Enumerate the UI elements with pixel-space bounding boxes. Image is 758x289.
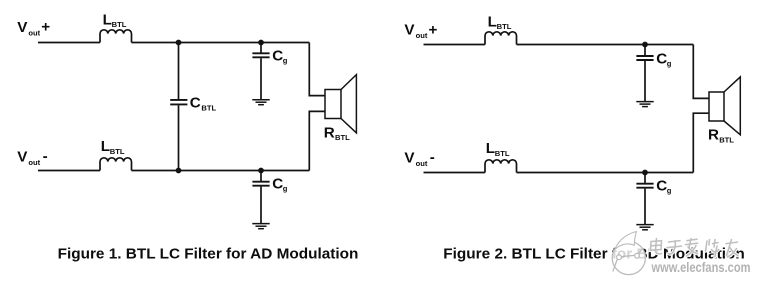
svg-text:L: L bbox=[101, 138, 110, 155]
wire bbox=[178, 43, 180, 100]
inductor L_BTL (fig1 bottom) bbox=[100, 158, 132, 171]
capacitor Cg (fig1 bottom) bbox=[252, 182, 269, 186]
label Cg (fig2 bottom) bbox=[656, 177, 672, 195]
wire bbox=[309, 43, 325, 96]
inductor L_BTL (fig2 bottom) bbox=[485, 160, 517, 173]
ground (fig2 top Cg) bbox=[636, 102, 653, 107]
wire bbox=[644, 173, 646, 184]
wire bbox=[260, 187, 262, 223]
label C_BTL bbox=[190, 95, 217, 113]
watermark text (CJK approximation) bbox=[651, 239, 739, 258]
junction bbox=[176, 40, 182, 46]
svg-text:www.elecfans.com: www.elecfans.com bbox=[651, 260, 751, 275]
svg-text:BTL: BTL bbox=[495, 149, 510, 158]
svg-text:g: g bbox=[283, 184, 288, 193]
wire bbox=[132, 170, 310, 172]
junction bbox=[258, 40, 264, 46]
node Vout- (left) bbox=[17, 148, 47, 167]
wire bbox=[260, 171, 262, 182]
node Vout- (right) bbox=[404, 149, 434, 168]
svg-text:BTL: BTL bbox=[335, 133, 350, 142]
svg-text:out: out bbox=[416, 159, 428, 168]
wire bbox=[693, 113, 709, 172]
label L_BTL (fig2 bottom) bbox=[486, 140, 510, 158]
label Cg (fig2 top) bbox=[656, 50, 672, 68]
svg-text:V: V bbox=[17, 19, 28, 36]
wire bbox=[38, 170, 100, 172]
junction bbox=[642, 42, 648, 48]
caption Figure 1 bbox=[58, 246, 359, 263]
caption Figure 2 bbox=[443, 246, 745, 263]
svg-text:C: C bbox=[656, 177, 667, 194]
wire bbox=[644, 45, 646, 56]
node Vout+ (right) bbox=[404, 21, 437, 40]
svg-text:R: R bbox=[708, 127, 719, 144]
watermark logo circle bbox=[612, 232, 645, 275]
svg-text:BTL: BTL bbox=[497, 22, 512, 31]
svg-text:L: L bbox=[488, 13, 497, 30]
svg-text:BTL: BTL bbox=[112, 20, 127, 29]
svg-text:L: L bbox=[486, 140, 495, 157]
wire bbox=[38, 42, 100, 44]
wire bbox=[517, 172, 694, 174]
svg-text:-: - bbox=[43, 148, 48, 165]
svg-text:-: - bbox=[430, 149, 435, 166]
wire bbox=[132, 42, 310, 44]
speaker R_BTL (fig2) bbox=[709, 77, 740, 135]
junction bbox=[642, 170, 648, 176]
label Cg (fig1 top) bbox=[272, 47, 288, 65]
capacitor C_BTL bbox=[170, 100, 187, 105]
label R_BTL (fig2) bbox=[708, 127, 734, 145]
svg-text:C: C bbox=[190, 95, 201, 112]
svg-text:g: g bbox=[667, 186, 672, 195]
junction bbox=[258, 168, 264, 174]
speaker R_BTL (fig1) bbox=[325, 75, 356, 133]
wire bbox=[644, 189, 646, 224]
capacitor Cg (fig1 top) bbox=[252, 53, 269, 57]
wire bbox=[693, 45, 709, 99]
ground (fig2 bottom Cg) bbox=[636, 225, 653, 230]
wire bbox=[309, 111, 325, 170]
svg-text:BTL: BTL bbox=[201, 103, 216, 112]
svg-text:out: out bbox=[416, 31, 428, 40]
junction bbox=[176, 168, 182, 174]
svg-text:L: L bbox=[103, 11, 112, 28]
svg-text:+: + bbox=[429, 21, 438, 38]
node Vout+ (left) bbox=[17, 19, 50, 38]
svg-text:+: + bbox=[41, 19, 50, 36]
label L_BTL (fig1 top) bbox=[103, 11, 127, 29]
wire bbox=[517, 44, 694, 46]
label L_BTL (fig2 top) bbox=[488, 13, 512, 31]
svg-text:V: V bbox=[17, 148, 28, 165]
svg-text:R: R bbox=[324, 124, 335, 141]
svg-text:V: V bbox=[404, 22, 415, 39]
wire bbox=[424, 44, 486, 46]
svg-text:g: g bbox=[283, 56, 288, 65]
wire bbox=[178, 105, 180, 170]
svg-text:C: C bbox=[272, 175, 283, 192]
wire bbox=[260, 43, 262, 53]
svg-text:Figure 1. BTL LC Filter for AD: Figure 1. BTL LC Filter for AD Modulatio… bbox=[58, 246, 359, 263]
inductor L_BTL (fig1 top) bbox=[100, 30, 132, 43]
inductor L_BTL (fig2 top) bbox=[485, 32, 517, 45]
svg-text:out: out bbox=[28, 28, 40, 37]
ground (fig1 bottom Cg) bbox=[252, 224, 269, 229]
label L_BTL (fig1 bottom) bbox=[101, 138, 125, 156]
svg-text:BTL: BTL bbox=[110, 147, 125, 156]
wire bbox=[260, 58, 262, 99]
svg-text:g: g bbox=[667, 59, 672, 68]
svg-text:V: V bbox=[404, 149, 415, 166]
capacitor Cg (fig2 bottom) bbox=[636, 184, 653, 188]
label Cg (fig1 bottom) bbox=[272, 175, 288, 193]
svg-text:C: C bbox=[272, 47, 283, 64]
svg-text:C: C bbox=[656, 50, 667, 67]
capacitor Cg (fig2 top) bbox=[636, 56, 653, 60]
svg-text:BTL: BTL bbox=[719, 135, 734, 144]
ground (fig1 top Cg) bbox=[252, 100, 269, 105]
wire bbox=[424, 172, 486, 174]
svg-text:out: out bbox=[28, 158, 40, 167]
wire bbox=[644, 61, 646, 101]
label R_BTL (fig1) bbox=[324, 124, 350, 142]
